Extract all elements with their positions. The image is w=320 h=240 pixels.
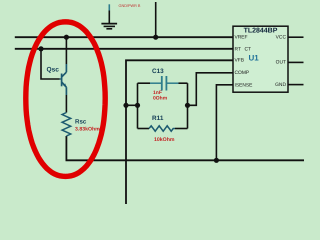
svg-text:0Ohm: 0Ohm <box>153 96 168 102</box>
svg-text:CT: CT <box>245 47 252 53</box>
svg-text:R11: R11 <box>152 115 164 122</box>
svg-text:ISENSE: ISENSE <box>235 82 254 88</box>
svg-text:3.83kOhm: 3.83kOhm <box>75 127 100 133</box>
svg-text:Rsc: Rsc <box>75 119 87 126</box>
wire OUT stub <box>288 61 304 63</box>
wire RC network left connector <box>126 104 138 106</box>
junction node on RT/CT bus at base wire <box>38 46 43 51</box>
wire R11 left lead <box>138 128 150 130</box>
wire VCC stub <box>288 36 304 38</box>
svg-text:GND/PWR B: GND/PWR B <box>119 4 141 8</box>
wire GND stub <box>288 84 304 86</box>
wire Rsc bottom to ground bus <box>66 136 304 160</box>
wire RC network left rail <box>137 83 139 128</box>
junction node on VREF bus at top vertical <box>153 35 158 40</box>
junction node VFB bus to RC network <box>123 103 128 108</box>
junction node RC left rail <box>135 103 140 108</box>
wire ISENSE down to ground bus <box>216 85 233 161</box>
wire top vertical to VREF bus <box>155 2 157 37</box>
junction node ISENSE on ground bus <box>214 158 219 163</box>
wire C13 left lead (black part) <box>138 82 151 84</box>
wire emitter to Rsc <box>65 95 67 113</box>
svg-text:VCC: VCC <box>276 34 287 40</box>
svg-text:VREF: VREF <box>235 34 248 40</box>
wire RC network right rail <box>187 83 189 128</box>
transistor Qsc emitter arrow <box>63 83 66 87</box>
wire R11 right lead <box>175 128 188 130</box>
svg-text:GND: GND <box>275 82 286 88</box>
wire VFB bus (third horizontal, turns down at left) <box>126 60 233 204</box>
junction node RC right rail <box>185 103 190 108</box>
ground <box>101 4 117 29</box>
resistor R11 (horizontal zigzag) <box>149 126 175 131</box>
transistor Qsc <box>60 64 67 95</box>
svg-text:10kOhm: 10kOhm <box>154 137 175 143</box>
wire base connection from RT/CT bus <box>41 49 60 79</box>
wire COMP to RC network <box>188 73 234 106</box>
annotation ellipse (red hand-drawn circle) <box>26 22 105 177</box>
svg-text:Qsc: Qsc <box>47 67 60 74</box>
svg-text:VFB: VFB <box>235 58 245 64</box>
junction node on VREF bus at collector <box>64 35 69 40</box>
wire C13 right lead (black part) <box>179 82 188 84</box>
capacitor C13 <box>150 76 179 91</box>
svg-text:RT: RT <box>235 47 241 53</box>
svg-text:OUT: OUT <box>276 59 286 65</box>
svg-text:C13: C13 <box>152 68 164 75</box>
IC U1 TL2844BP body <box>233 26 288 92</box>
wire RT/CT bus (second horizontal) <box>15 48 233 50</box>
wire collector drop from VREF bus <box>65 37 67 64</box>
svg-text:TL2844BP: TL2844BP <box>244 27 278 34</box>
wire VREF bus (top horizontal) <box>15 36 233 38</box>
resistor Rsc (vertical zigzag) <box>62 113 71 137</box>
svg-text:COMP: COMP <box>235 70 250 76</box>
svg-text:U1: U1 <box>249 54 260 63</box>
